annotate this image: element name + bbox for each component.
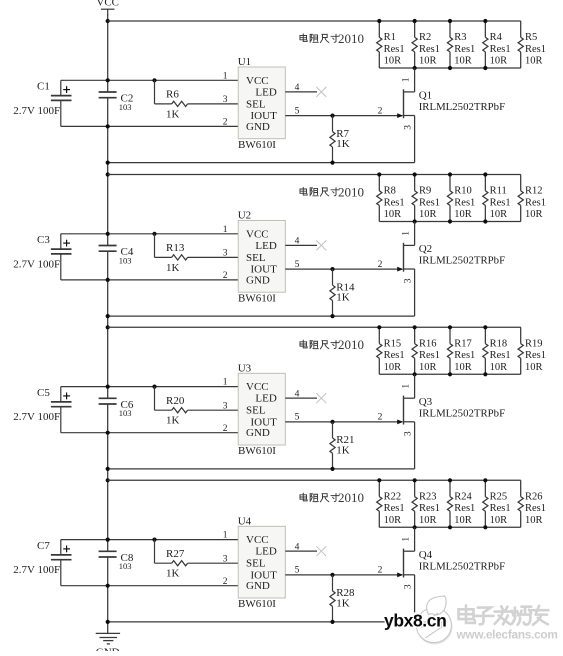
svg-text:10R: 10R [454,56,472,67]
wire bank top bus block 1 [108,20,521,22]
svg-text:BW610I: BW610I [238,445,276,457]
svg-text:R1: R1 [384,32,396,43]
svg-text:Res1: Res1 [525,197,546,208]
node R14 top junction [330,267,334,271]
wire U4 pin5 IOUT to Q4 gate [285,574,402,576]
node R7 top junction [330,114,334,118]
svg-text:Q1: Q1 [419,90,432,102]
svg-text:2: 2 [378,106,383,116]
svg-text:IRLML2502TRPbF: IRLML2502TRPbF [419,560,505,572]
wire bank top bus block 2 [108,174,521,176]
wire cell-top to U4 pin1 [61,539,238,541]
svg-text:R12: R12 [525,186,543,197]
svg-text:103: 103 [119,255,132,265]
svg-text:Res1: Res1 [525,350,546,361]
no-connect X [316,87,326,97]
wire: main series rail [107,14,109,633]
svg-text:2: 2 [223,577,228,587]
watermark elecfans logo text [456,605,558,641]
node bottom bus junction at R16 [413,372,417,376]
svg-text:Res1: Res1 [525,44,546,55]
node top bus junction at R9 [413,172,417,176]
svg-text:3: 3 [403,431,413,436]
node rail junction pin2 wire [106,124,110,128]
resistor R24 10R [447,480,475,527]
wire Q4 source return [108,621,385,623]
no-connect X [316,546,326,556]
resistor R11 10R [483,175,511,222]
svg-text:Res1: Res1 [454,44,475,55]
svg-text:IRLML2502TRPbF: IRLML2502TRPbF [419,407,505,419]
svg-text:R20: R20 [166,395,185,407]
capacitor C4 103 [99,246,134,266]
svg-text:R6: R6 [166,89,179,101]
resistor R19 10R [518,327,546,374]
node bottom bus junction at R11 [483,219,487,223]
svg-text:R27: R27 [166,548,185,560]
svg-text:10R: 10R [490,362,508,373]
svg-text:U4: U4 [238,515,252,527]
resistor R1 10R [377,21,405,68]
wire U1 pin4 LED no-connect [285,91,317,93]
svg-text:3: 3 [403,278,413,283]
transistor Q3 IRLML2502TRPbF [402,374,505,469]
svg-text:Res1: Res1 [490,350,511,361]
resistor R5 10R [518,21,546,68]
resistor R20 1K [155,387,239,427]
node R28 bottom junction [330,620,334,624]
node rail junction pin1 wire [106,78,110,82]
resistor R3 10R [447,21,475,68]
svg-text:Res1: Res1 [419,350,440,361]
svg-text:1: 1 [402,384,412,389]
node rail junction pin1 wire [106,232,110,236]
node top bus junction at R1 [377,19,381,23]
node rail junction pin1 wire [106,385,110,389]
svg-text:C5: C5 [37,387,50,399]
resistor R6 1K [155,80,239,120]
node bottom bus junction at R24 [448,525,452,529]
svg-text:C3: C3 [37,234,50,246]
svg-text:R11: R11 [490,186,507,197]
node bottom bus junction at R4 [483,66,487,70]
resistor R2 10R [412,21,440,68]
svg-text:10R: 10R [384,515,402,526]
svg-text:LED: LED [255,546,276,558]
transistor Q2 IRLML2502TRPbF [402,222,505,317]
wire Q1 source return [108,162,415,164]
node bottom bus junction at R3 [448,66,452,70]
svg-text:2010: 2010 [338,184,364,199]
wire bank bottom bus block 2 [379,221,521,223]
svg-text:3: 3 [223,95,228,105]
label 电阻尺寸2010 block 1 [300,31,364,46]
node top bus junction at R10 [448,172,452,176]
svg-text:1: 1 [402,231,412,236]
svg-text:R2: R2 [419,32,431,43]
resistor R21 1K [330,422,355,469]
resistor R25 10R [483,480,511,527]
svg-text:1: 1 [223,531,228,541]
power symbol VCC [96,0,119,14]
svg-text:2.7V 100F: 2.7V 100F [13,411,60,423]
node top bus junction at R24 [448,478,452,482]
op-amp U4 BW6101 [238,515,286,610]
svg-text:10R: 10R [490,515,508,526]
svg-text:103: 103 [119,561,132,571]
svg-text:LED: LED [255,240,276,252]
svg-text:Res1: Res1 [490,197,511,208]
transistor Q4 IRLML2502TRPbF [402,527,505,612]
capacitor C1 2.7V 100F [13,80,71,126]
node rail junction source wire [106,161,110,165]
resistor R7 1K [330,116,350,163]
node R21 bottom junction [330,467,334,471]
wire cell-bottom to U1 pin2 [61,125,238,127]
svg-text:Q3: Q3 [419,396,433,408]
svg-text:R22: R22 [384,491,402,502]
wire cell-top to U1 pin1 [61,79,238,81]
svg-text:VCC: VCC [246,228,269,240]
label 电阻尺寸2010 block 4 [300,490,364,505]
node R21 top junction [330,420,334,424]
svg-text:3: 3 [223,249,228,259]
svg-text:103: 103 [119,408,132,418]
node R7 bottom junction [330,161,334,165]
svg-text:LED: LED [255,393,276,405]
wire bank bottom bus block 1 [379,67,521,69]
node rail junction pin2 wire [106,584,110,588]
svg-text:Res1: Res1 [525,503,546,514]
node VCC-rail junction block 3 [106,325,110,329]
svg-text:10R: 10R [419,515,437,526]
resistor R15 10R [377,327,405,374]
node bottom bus junction at R2 [413,66,417,70]
svg-text:2: 2 [223,424,228,434]
resistor R14 1K [330,269,355,316]
resistor R13 1K [155,234,239,274]
capacitor C3 2.7V 100F [13,234,71,280]
node rail junction source wire [106,620,110,624]
wire U2 pin5 IOUT to Q2 gate [285,268,402,270]
node bottom bus junction at R17 [448,372,452,376]
node top bus junction at R3 [448,19,452,23]
node R20 stub junction [152,385,156,389]
node top bus junction at R2 [413,19,417,23]
svg-text:R5: R5 [525,32,537,43]
svg-text:1: 1 [223,71,228,81]
svg-text:10R: 10R [525,209,543,220]
transistor Q1 IRLML2502TRPbF [402,68,505,163]
gate arrowhead [397,420,403,425]
svg-text:Res1: Res1 [454,197,475,208]
svg-text:IRLML2502TRPbF: IRLML2502TRPbF [419,101,505,113]
svg-text:SEL: SEL [246,252,266,264]
svg-text:C7: C7 [37,540,50,552]
svg-text:www.elecfans.com: www.elecfans.com [456,628,558,642]
node top bus junction at R18 [483,325,487,329]
svg-text:10R: 10R [490,209,508,220]
gate arrowhead [397,573,403,578]
svg-text:Res1: Res1 [490,503,511,514]
wire U4 pin4 LED no-connect [285,550,317,552]
svg-text:Q2: Q2 [419,243,432,255]
svg-text:R4: R4 [490,32,503,43]
svg-text:Res1: Res1 [419,503,440,514]
node top bus junction at R23 [413,478,417,482]
svg-text:10R: 10R [454,209,472,220]
svg-text:BW610I: BW610I [238,292,276,304]
wire U1 pin5 IOUT to Q1 gate [285,115,402,117]
svg-text:2: 2 [378,413,383,423]
svg-text:1K: 1K [166,108,180,120]
node bottom bus junction at R18 [483,372,487,376]
node rail junction pin2 wire [106,278,110,282]
svg-text:2010: 2010 [338,31,364,46]
svg-text:GND: GND [246,274,270,286]
svg-text:1K: 1K [166,568,180,580]
wire cell-bottom to U2 pin2 [61,279,238,281]
gate arrowhead [397,113,403,118]
resistor R26 10R [518,480,546,527]
svg-text:BW610I: BW610I [238,139,276,151]
node VCC-rail junction block 2 [106,172,110,176]
node R28 top junction [330,573,334,577]
svg-text:R19: R19 [525,338,543,349]
svg-text:10R: 10R [384,56,402,67]
svg-text:SEL: SEL [246,558,266,570]
node top bus junction at R17 [448,325,452,329]
svg-text:U1: U1 [238,56,251,68]
svg-text:10R: 10R [454,515,472,526]
resistor R9 10R [412,175,440,222]
svg-text:GND: GND [96,647,120,652]
svg-text:10R: 10R [525,515,543,526]
svg-text:Res1: Res1 [384,350,405,361]
node top bus junction at R25 [483,478,487,482]
no-connect X [316,240,326,250]
resistor R28 1K [330,575,355,622]
svg-text:Res1: Res1 [454,350,475,361]
wire U2 pin4 LED no-connect [285,244,317,246]
svg-text:1K: 1K [166,262,180,274]
svg-text:1K: 1K [166,415,180,427]
node VCC-rail junction block 1 [106,19,110,23]
resistor R10 10R [447,175,475,222]
node bottom bus junction at R23 [413,525,417,529]
node top bus junction at R4 [483,19,487,23]
svg-text:3: 3 [223,401,228,411]
wire bank top bus block 4 [108,479,521,481]
wire cell-bottom to U3 pin2 [61,432,238,434]
svg-text:5: 5 [295,566,300,576]
svg-text:5: 5 [295,106,300,116]
svg-text:2.7V 100F: 2.7V 100F [13,564,60,576]
node VCC-rail junction block 4 [106,478,110,482]
svg-text:2: 2 [223,118,228,128]
svg-text:R16: R16 [419,338,437,349]
wire cell-top to U3 pin1 [61,386,238,388]
svg-text:SEL: SEL [246,98,266,110]
capacitor C7 2.7V 100F [13,540,71,586]
svg-text:ybx8.cn: ybx8.cn [384,610,446,630]
wire Q2 source return [108,315,415,317]
gate arrowhead [397,267,403,272]
wire cell-bottom to U4 pin2 [61,585,238,587]
svg-text:5: 5 [295,413,300,423]
svg-text:3: 3 [403,584,413,589]
svg-text:10R: 10R [525,362,543,373]
svg-text:3: 3 [223,554,228,564]
node top bus junction at R8 [377,172,381,176]
svg-text:5: 5 [295,260,300,270]
node top bus junction at R15 [377,325,381,329]
svg-text:R9: R9 [419,186,431,197]
resistor R4 10R [483,21,511,68]
op-amp U3 BW6101 [238,362,286,457]
svg-text:Res1: Res1 [454,503,475,514]
node bottom bus junction at R9 [413,219,417,223]
svg-text:R10: R10 [454,186,472,197]
node top bus junction at R22 [377,478,381,482]
label 电阻尺寸2010 block 2 [300,184,364,199]
svg-text:1K: 1K [336,598,350,610]
node R14 bottom junction [330,314,334,318]
svg-text:GND: GND [246,121,270,133]
svg-text:R13: R13 [166,242,185,254]
resistor R27 1K [155,540,239,580]
svg-text:1: 1 [223,378,228,388]
svg-text:Res1: Res1 [384,197,405,208]
svg-text:3: 3 [403,125,413,130]
svg-text:103: 103 [119,102,132,112]
svg-text:2010: 2010 [338,490,364,505]
node rail junction pin2 wire [106,431,110,435]
resistor R12 10R [518,175,546,222]
svg-text:IRLML2502TRPbF: IRLML2502TRPbF [419,255,505,267]
svg-text:2: 2 [378,566,383,576]
capacitor C8 103 [99,551,134,571]
node rail junction pin1 wire [106,538,110,542]
svg-text:R26: R26 [525,491,543,502]
resistor R8 10R [377,175,405,222]
node rail junction source wire [106,314,110,318]
wire U3 pin5 IOUT to Q3 gate [285,421,402,423]
svg-text:VCC: VCC [96,0,119,9]
node R27 stub junction [152,538,156,542]
svg-text:BW610I: BW610I [238,598,276,610]
capacitor C6 103 [99,398,134,418]
svg-text:2: 2 [378,260,383,270]
svg-text:U2: U2 [238,210,251,222]
svg-text:Res1: Res1 [384,503,405,514]
watermark ybx8.cn logo blob [416,596,452,644]
svg-text:VCC: VCC [246,534,269,546]
svg-text:2.7V 100F: 2.7V 100F [13,105,60,117]
no-connect X [316,393,326,403]
svg-text:1K: 1K [336,292,350,304]
wire bank bottom bus block 4 [379,526,521,528]
svg-text:2010: 2010 [338,337,364,352]
svg-text:C1: C1 [37,81,50,93]
resistor R17 10R [447,327,475,374]
svg-text:R15: R15 [384,338,402,349]
svg-text:SEL: SEL [246,405,266,417]
op-amp U2 BW6101 [238,210,286,305]
resistor R18 10R [483,327,511,374]
svg-text:GND: GND [246,427,270,439]
node top bus junction at R16 [413,325,417,329]
svg-text:10R: 10R [419,209,437,220]
svg-text:10R: 10R [454,362,472,373]
svg-text:R25: R25 [490,491,508,502]
svg-text:GND: GND [246,580,270,592]
svg-text:2: 2 [223,271,228,281]
wire cell-top to U2 pin1 [61,233,238,235]
svg-text:Q4: Q4 [419,549,433,561]
svg-text:1: 1 [223,225,228,235]
wire bank bottom bus block 3 [379,373,521,375]
node R13 stub junction [152,232,156,236]
node bottom bus junction at R10 [448,219,452,223]
svg-text:R23: R23 [419,491,437,502]
svg-text:VCC: VCC [246,75,269,87]
node top bus junction at R11 [483,172,487,176]
op-amp U1 BW6101 [238,56,286,151]
wire bank top bus block 3 [108,326,521,328]
capacitor C5 2.7V 100F [13,387,71,433]
svg-text:10R: 10R [384,362,402,373]
svg-text:U3: U3 [238,362,252,374]
svg-text:Res1: Res1 [419,44,440,55]
label 电阻尺寸2010 block 3 [300,337,364,352]
svg-text:1K: 1K [336,138,350,150]
resistor R23 10R [412,480,440,527]
svg-text:Res1: Res1 [419,197,440,208]
svg-text:1: 1 [402,537,412,542]
wire Q3 source return [108,468,415,470]
svg-text:10R: 10R [419,56,437,67]
svg-text:Res1: Res1 [384,44,405,55]
svg-text:LED: LED [255,86,276,98]
resistor R22 10R [377,480,405,527]
svg-text:10R: 10R [490,56,508,67]
capacitor C2 103 [99,92,134,112]
svg-text:1K: 1K [336,445,350,457]
svg-text:R8: R8 [384,186,396,197]
svg-text:10R: 10R [525,56,543,67]
ground symbol GND [96,633,120,656]
wire U3 pin4 LED no-connect [285,397,317,399]
node R6 stub junction [152,78,156,82]
svg-text:2.7V 100F: 2.7V 100F [13,258,60,270]
svg-text:R18: R18 [490,338,508,349]
node rail junction source wire [106,467,110,471]
watermark ybx8.cn text [384,610,446,630]
svg-text:VCC: VCC [246,381,269,393]
svg-text:10R: 10R [384,209,402,220]
svg-text:1: 1 [402,77,412,82]
node bottom bus junction at R25 [483,525,487,529]
svg-text:Res1: Res1 [490,44,511,55]
svg-text:10R: 10R [419,362,437,373]
svg-text:R17: R17 [454,338,472,349]
resistor R16 10R [412,327,440,374]
svg-text:R24: R24 [454,491,472,502]
svg-text:R3: R3 [454,32,466,43]
